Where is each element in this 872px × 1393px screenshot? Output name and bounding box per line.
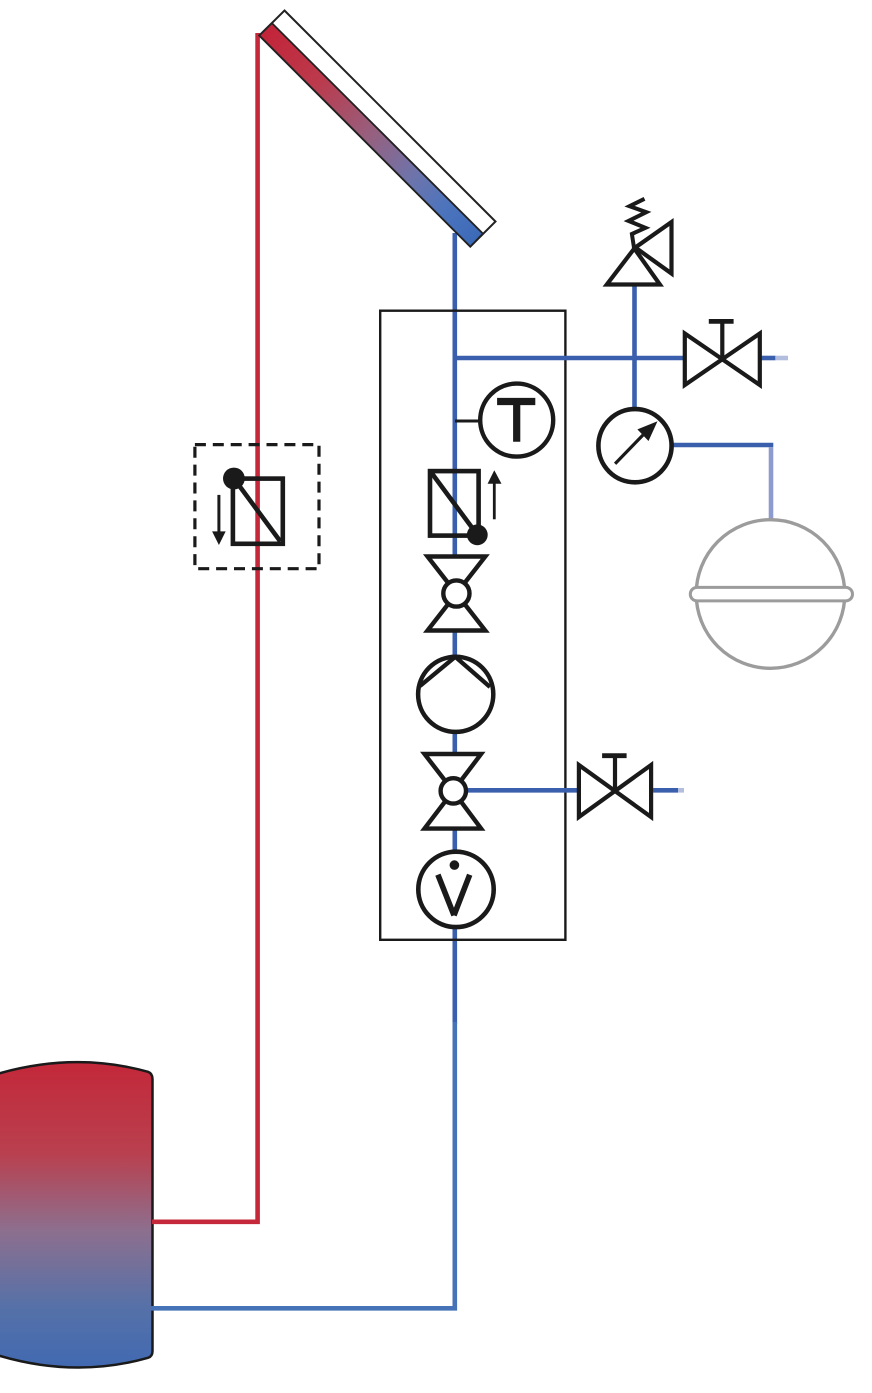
wire blue return pipe (collector down through pump station)	[452, 233, 457, 1024]
wire vessel riser (light)	[769, 447, 774, 519]
storage tank	[0, 1062, 153, 1367]
expansion vessel	[690, 520, 852, 669]
wire top branch (to safety group)	[455, 356, 684, 361]
check valve in pump station	[430, 470, 502, 545]
wire red flow pipe (tank to collector)	[152, 33, 258, 1222]
ball valve lower	[425, 754, 482, 829]
wire blue return pipe lower run (to tank)	[151, 1022, 455, 1308]
safety relief valve	[607, 199, 672, 285]
wire valve outlet stub	[760, 356, 775, 361]
wire lower branch (to drain valve)	[455, 788, 578, 793]
check valve left	[212, 468, 283, 545]
shut-off valve top right	[685, 321, 760, 385]
solar collector panel	[259, 11, 495, 247]
gravity brake check valve (dashed enclosure)	[195, 445, 319, 569]
wire safety valve riser	[632, 286, 637, 410]
shut-off drain valve lower right	[579, 756, 651, 817]
ball valve upper	[428, 557, 486, 631]
temperature sensor T	[455, 384, 553, 457]
pump station box	[380, 311, 565, 940]
wire gauge to vessel horizontal	[672, 443, 773, 448]
pump	[418, 657, 493, 732]
pressure gauge	[598, 409, 671, 482]
flow meter V	[418, 852, 493, 927]
wire lower valve stub	[653, 788, 678, 793]
